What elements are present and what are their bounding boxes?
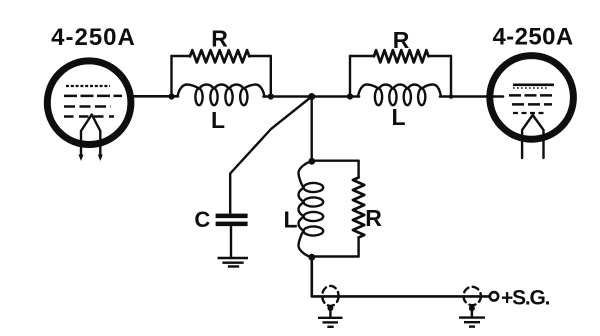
capacitor C bottom plate — [216, 222, 248, 227]
tube V2 plate (solid line) — [513, 84, 554, 87]
tube V2 grid row 2 (dashed) — [512, 103, 552, 106]
svg-text:C: C — [194, 207, 210, 232]
svg-text:R: R — [393, 27, 410, 53]
tube V1 (4-250A, left) envelope — [47, 61, 131, 145]
svg-text:L: L — [211, 107, 225, 133]
tube V2 grid row 3 (dotted) — [513, 112, 546, 114]
suppressor 2 loop: right rail — [450, 56, 452, 97]
tube V1 grid row 3 (short dashes) — [64, 115, 114, 117]
suppressor 2 top rail (right of R) — [429, 55, 452, 57]
wire: suppressor 2 to right tube grid — [440, 95, 503, 98]
suppressor 1 top rail (right of R) — [249, 55, 270, 57]
wire: capacitor to ground — [230, 226, 232, 258]
ground (below feedthrough 2) — [459, 318, 485, 327]
tube V1 grid row 2 (dashed) — [64, 105, 111, 108]
junction dot (suppressor 1 left) — [168, 93, 174, 99]
wire: diagonal from center node to capacitor branch — [230, 97, 312, 214]
junction dot (suppressor 2 right) — [449, 94, 454, 99]
svg-text:4-250A: 4-250A — [51, 24, 136, 51]
feedthrough 2 dot — [469, 305, 475, 311]
resistor R (suppressor 1 zigzag) — [190, 50, 249, 62]
suppressor 1 loop: right rail — [270, 56, 272, 97]
tube V1 filament — [81, 115, 100, 158]
wire: tank bottom down and right to S.G. feed — [312, 257, 490, 296]
tube V1 filament arrowheads — [79, 155, 103, 162]
capacitor C top plate — [216, 214, 248, 219]
resistor R (suppressor 2 zigzag) — [374, 50, 429, 62]
wire: center node to suppressor 2 — [312, 95, 359, 98]
tube V1 grid row 1 (dashed, connects to grid lead) — [64, 95, 122, 98]
ground (below feedthrough 1) — [318, 318, 343, 327]
node: tank bottom junction — [308, 254, 315, 261]
svg-text:L: L — [283, 206, 297, 232]
svg-text:+S.G.: +S.G. — [501, 286, 550, 309]
feedthrough capacitor 1 (dashed circle) — [322, 286, 338, 306]
inductor L (suppressor 2 coil) — [358, 85, 441, 106]
tube V1 plate (dotted line) — [66, 85, 110, 87]
wire: suppressor 1 to center node — [264, 95, 312, 98]
wire: feedthrough 1 to ground — [329, 306, 331, 318]
suppressor 2 top rail (left of R) — [350, 55, 374, 57]
svg-text:L: L — [391, 104, 405, 130]
terminal (open circle) for +S.G. — [490, 292, 498, 300]
junction dot (suppressor 2 left) — [347, 93, 353, 99]
ground (below C) — [218, 258, 249, 267]
wire: center node down to tank top node — [311, 97, 313, 162]
feedthrough capacitor 2 (dashed circle) — [464, 287, 481, 305]
node: center junction — [308, 93, 315, 100]
wire: feedthrough 2 to ground — [471, 306, 473, 318]
svg-text:R: R — [211, 25, 228, 51]
inductor L (suppressor 1 coil) — [178, 85, 265, 106]
suppressor 1 top rail (left of R) — [172, 55, 191, 57]
tube V2 grid row 1 (dashed, connects to grid lead) — [509, 94, 552, 97]
svg-text:4-250A: 4-250A — [492, 24, 573, 51]
tank loop: top rail — [312, 159, 359, 161]
node: tank top junction — [308, 158, 315, 165]
resistor R (tank, vertical zigzag) — [353, 178, 364, 238]
tube V2 plate underline (dotted) — [513, 87, 549, 89]
tube V2 filament — [522, 115, 543, 158]
wire: left tube grid to suppressor 1 — [130, 95, 178, 98]
feedthrough 1 dot — [327, 305, 333, 311]
tank loop: right rail lower — [357, 238, 359, 257]
junction dot (suppressor 1 right) — [268, 93, 274, 99]
inductor L (tank, vertical coil) — [299, 161, 324, 257]
svg-text:R: R — [365, 205, 382, 231]
tank loop: right rail upper — [357, 161, 359, 178]
tank loop: bottom rail — [312, 255, 359, 257]
suppressor 1 loop: left rail — [170, 56, 172, 97]
suppressor 2 loop: left rail — [349, 56, 351, 97]
tube V2 (4-250A, right) envelope — [490, 56, 574, 140]
